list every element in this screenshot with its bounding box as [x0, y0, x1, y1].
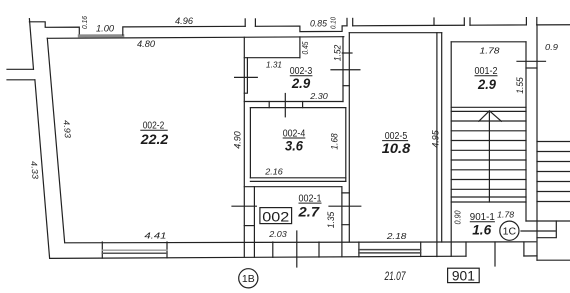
- node tick x347: [346, 18, 348, 25]
- wire left stub upper: [7, 68, 33, 70]
- node tick x434: [433, 18, 435, 25]
- wire 1C leader: [521, 230, 555, 232]
- node axis 1B: [239, 269, 258, 288]
- wire door caps 002-3/002-5: [343, 85, 349, 87]
- svg-text:0.90: 0.90: [454, 210, 463, 224]
- svg-text:1.52: 1.52: [332, 45, 342, 62]
- wire 002-4 left wall: [249, 108, 251, 178]
- node window mark right wall: [517, 60, 546, 62]
- wire neighbor box: [537, 221, 556, 238]
- wire window glazing 2.18: [359, 250, 421, 253]
- svg-text:901: 901: [452, 268, 475, 283]
- wire top outline left step: [29, 22, 79, 35]
- wire window glazing 4.41: [102, 249, 167, 251]
- svg-text:1B: 1B: [242, 273, 255, 285]
- node door jamb x302.6: [302, 102, 304, 108]
- wire 002-5 interior top line: [349, 32, 441, 34]
- node door mark 002-2/002-1: [232, 205, 256, 207]
- wire 002-3 notch step x299.9: [299, 37, 301, 58]
- node window jamb x358.9: [358, 242, 360, 257]
- wire recess right step: [123, 26, 245, 35]
- node door mark 002-2/002-3: [235, 76, 258, 78]
- svg-text:0.85: 0.85: [310, 19, 328, 29]
- svg-text:2.30: 2.30: [309, 91, 328, 101]
- wire bottom outer line left: [50, 256, 466, 258]
- wire top outline right: [353, 24, 465, 27]
- node tick x319: [318, 242, 320, 257]
- wire recess back wall thick gray: [79, 34, 123, 37]
- wire wall 002-2 right x244.3: [243, 37, 245, 257]
- svg-text:22.2: 22.2: [140, 131, 169, 147]
- node window jamb x420.7: [420, 242, 422, 257]
- svg-text:2.18: 2.18: [386, 231, 407, 241]
- wire 002-4 bottom line: [250, 177, 345, 179]
- svg-text:1.00: 1.00: [96, 23, 114, 33]
- wire neighbor bottom line: [537, 259, 570, 261]
- node window jamb x165.5: [166, 242, 168, 258]
- svg-text:3.6: 3.6: [285, 138, 303, 154]
- svg-text:1.55: 1.55: [515, 76, 525, 93]
- wire wall x436.9: [436, 33, 438, 257]
- node axis 1C: [500, 221, 519, 240]
- svg-text:4.41: 4.41: [144, 231, 166, 241]
- wire top outline far right: [470, 24, 526, 26]
- svg-text:2.9: 2.9: [477, 76, 496, 92]
- wire wall x441.7: [441, 33, 443, 242]
- wire stair left wall x451.2: [450, 42, 452, 256]
- wire bottom interior line: [65, 242, 536, 243]
- svg-text:1.6: 1.6: [472, 221, 491, 237]
- svg-text:002: 002: [262, 208, 289, 224]
- wire interior diagonal wall 002-2 left: [47, 38, 64, 242]
- wire 002-5 left wall x349.8: [348, 33, 350, 242]
- svg-text:4.33: 4.33: [29, 161, 41, 180]
- wire wall 002-3/002-4 lower line: [250, 107, 345, 109]
- svg-text:1C: 1C: [503, 226, 517, 238]
- wire 002-1 top line: [244, 186, 342, 188]
- node tick x536.8: [536, 18, 538, 25]
- node door mark 002-3/002-5: [331, 69, 360, 71]
- svg-text:4.80: 4.80: [137, 39, 155, 49]
- wire wall 002-3/002-4 upper line: [244, 101, 343, 103]
- svg-text:2.16: 2.16: [264, 167, 283, 177]
- svg-text:2.03: 2.03: [268, 229, 287, 239]
- wire leader 002: [296, 231, 298, 267]
- wire door caps 002-1/002-5: [342, 193, 349, 225]
- node door jamb x269.2: [268, 102, 270, 108]
- node tick x470: [469, 18, 471, 25]
- svg-text:0.16: 0.16: [80, 15, 89, 29]
- svg-text:1.35: 1.35: [326, 211, 337, 228]
- svg-text:4.96: 4.96: [175, 16, 193, 26]
- wire 002-3 right wall x343.8: [342, 37, 344, 102]
- wire stair treads: [451, 121, 526, 197]
- node tick opening left x245.2: [244, 19, 246, 26]
- svg-text:1.78: 1.78: [497, 211, 515, 220]
- wire neighbor landing line: [526, 220, 570, 222]
- svg-text:1.68: 1.68: [330, 133, 340, 150]
- wire 001-2 bottom line A: [451, 106, 526, 108]
- wire door strip 002-3 side: [244, 58, 247, 93]
- wire leader 901: [494, 242, 496, 266]
- node wall mark y53: [342, 52, 352, 54]
- svg-text:2.9: 2.9: [291, 75, 310, 91]
- wire 002-3 notch bottom 1.31: [244, 57, 300, 59]
- svg-text:0.9: 0.9: [545, 42, 558, 52]
- node tick x352.7: [352, 18, 354, 25]
- node tick x523.9: [523, 242, 525, 256]
- wire right wall inner x526: [525, 42, 527, 221]
- node door mark 002-1/002-5: [329, 205, 361, 207]
- node window jamb x102.3: [101, 242, 103, 258]
- svg-text:10.8: 10.8: [382, 140, 411, 156]
- node window mark right wall inner: [526, 67, 537, 69]
- wire top outline edge: [537, 24, 570, 26]
- svg-text:0.45: 0.45: [301, 41, 310, 54]
- node tick opening right x255.4: [254, 19, 256, 26]
- svg-text:1.31: 1.31: [266, 60, 282, 70]
- node tick x466: [465, 242, 467, 256]
- wire outer diagonal wall upper: [29, 19, 33, 70]
- wire right wall outer x537: [536, 25, 538, 260]
- svg-text:0.10: 0.10: [329, 16, 338, 29]
- wire interior top wall line: [47, 37, 344, 39]
- wire outer diagonal wall lower: [35, 80, 50, 258]
- wire stair direction arrow: [479, 111, 502, 122]
- wire left stub lower: [7, 79, 35, 81]
- label 901 box: [448, 268, 480, 282]
- wire neighbor stair treads: [537, 142, 570, 202]
- wire 002-4 right wall: [345, 108, 347, 182]
- wire stair center line: [488, 111, 490, 202]
- svg-text:2.7: 2.7: [297, 203, 320, 219]
- wire top outline mid: [255, 26, 347, 32]
- node tick x272.8: [272, 242, 274, 257]
- svg-text:1.78: 1.78: [480, 46, 500, 56]
- label 002 box: [260, 208, 292, 224]
- node tick x526.4: [525, 18, 527, 25]
- wire 002-4 bottom second line: [250, 180, 345, 182]
- svg-text:21.07: 21.07: [384, 271, 406, 283]
- wire 002-1 left wall: [253, 187, 255, 258]
- wire 002-1 right wall: [341, 187, 343, 257]
- wire 001-2 bottom line B: [451, 110, 526, 112]
- wire bottom outer line right: [524, 255, 537, 257]
- wire 001-2 top line: [451, 41, 526, 43]
- wire door cap 002-1 left: [244, 225, 254, 227]
- wire landing top line: [451, 201, 526, 203]
- node tick x464.3: [463, 18, 465, 25]
- svg-text:4.95: 4.95: [431, 129, 441, 147]
- wire door leaf 002-4: [284, 94, 286, 117]
- svg-text:4.90: 4.90: [233, 131, 244, 149]
- svg-text:4.93: 4.93: [62, 120, 74, 139]
